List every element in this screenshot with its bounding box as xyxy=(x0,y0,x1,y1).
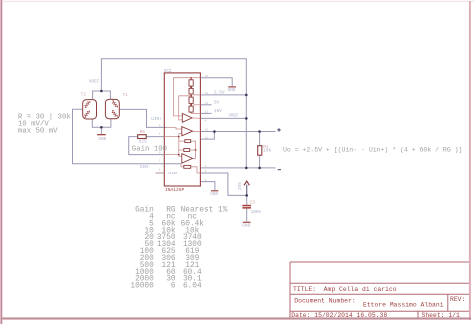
node C3 junction xyxy=(245,194,248,197)
op-amp U1 IC2 INA125P body xyxy=(164,69,201,193)
svg-text:5: 5 xyxy=(205,170,207,173)
pin numbers left side xyxy=(159,124,161,171)
IC internal feedback resistors xyxy=(184,140,191,169)
svg-text:Uo = +2.5V + [(Uin- - Uin+) *: Uo = +2.5V + [(Uin- - Uin+) * (4 + 60k /… xyxy=(283,146,462,153)
svg-text:12: 12 xyxy=(205,111,209,114)
svg-text:100n: 100n xyxy=(251,210,262,215)
svg-text:Gain 100: Gain 100 xyxy=(132,145,167,153)
svg-text:TITLE: Amp Cella di carico: TITLE: Amp Cella di carico xyxy=(293,286,397,293)
svg-text:4: 4 xyxy=(205,120,207,123)
resistor RG (gain set) xyxy=(138,130,147,144)
wire top GND xyxy=(200,78,232,87)
load cell T2 xyxy=(83,100,97,119)
gain table xyxy=(130,207,227,291)
wire RG top row xyxy=(146,136,164,138)
svg-text:5V: 5V xyxy=(214,100,220,105)
svg-text:13: 13 xyxy=(205,102,209,105)
svg-text:GND: GND xyxy=(228,88,236,93)
svg-text:10000: 10000 xyxy=(130,283,154,291)
wire R1 bottom lead xyxy=(259,155,261,168)
svg-text:8: 8 xyxy=(159,132,161,135)
title block text xyxy=(291,286,465,319)
svg-text:15: 15 xyxy=(205,75,209,78)
IC internal op-amp A1 xyxy=(182,114,192,123)
svg-text:6: 6 xyxy=(159,124,161,127)
wire IAREF to C3 node xyxy=(200,173,246,195)
ground (bridge bottom) xyxy=(97,134,107,142)
wire RG return loop xyxy=(129,137,165,155)
svg-text:C3: C3 xyxy=(250,200,256,205)
node VREF rail junction xyxy=(245,117,248,120)
svg-text:VREF: VREF xyxy=(89,79,100,84)
wire C3 to GND xyxy=(246,208,248,222)
ground (IC pin 3) xyxy=(210,190,218,197)
frame right edge xyxy=(469,1,471,320)
IC internal gain rail xyxy=(178,134,180,157)
IC internal op-amp A3 xyxy=(182,154,193,164)
svg-text:10k: 10k xyxy=(263,148,271,153)
load cell T1 xyxy=(105,99,119,118)
node 2.5V rail junction xyxy=(245,94,248,97)
testpoint arrow 2V5 xyxy=(238,181,249,190)
left annotation text xyxy=(18,114,71,136)
svg-text:GND: GND xyxy=(242,223,250,228)
node sense junction xyxy=(213,130,216,133)
wire minus output row xyxy=(200,167,275,169)
svg-text:Sheet: 1/1: Sheet: 1/1 xyxy=(422,312,461,319)
svg-text:Document Number:: Document Number: xyxy=(294,297,355,304)
wire Vo output row to + xyxy=(200,131,275,133)
svg-text:10V: 10V xyxy=(214,109,222,114)
wire UIN+ from bridge T1 to IC xyxy=(119,109,166,127)
node R1 bottom junction xyxy=(258,167,261,170)
pin 1 SLEEP stub xyxy=(156,171,178,175)
ground (below C3) xyxy=(242,222,250,229)
svg-text:RG: RG xyxy=(140,130,146,135)
resistor R1 xyxy=(258,145,272,155)
svg-text:14: 14 xyxy=(205,92,209,95)
svg-text:max 50 mV: max 50 mV xyxy=(18,128,58,136)
junction dots xyxy=(100,90,261,197)
wire UIN- from bridge T2 to IC xyxy=(73,109,182,164)
svg-text:2.5V: 2.5V xyxy=(214,91,225,96)
svg-text:7: 7 xyxy=(159,160,161,163)
wire pin3 to GND xyxy=(200,182,215,191)
wire 2.5V pin to rail xyxy=(200,94,246,96)
svg-text:REV:: REV: xyxy=(450,296,465,303)
wire bridge top bar xyxy=(93,91,111,100)
wire bridge bottom bar xyxy=(92,119,111,128)
svg-text:Ettore Massimo Albani: Ettore Massimo Albani xyxy=(363,302,444,309)
svg-text:GND: GND xyxy=(98,137,106,142)
svg-text:2V5: 2V5 xyxy=(238,182,243,190)
wire testpoint stem xyxy=(246,185,248,196)
IC internal input wires xyxy=(167,127,182,129)
wire C3 node vertical xyxy=(246,185,248,205)
wire 10V stub xyxy=(200,112,211,114)
IC internal op-amp outputs xyxy=(192,117,200,120)
svg-text:625: 625 xyxy=(139,140,147,145)
svg-text:T2: T2 xyxy=(81,92,87,97)
svg-text:T1: T1 xyxy=(122,93,128,98)
output terminal + xyxy=(277,128,281,170)
frame bottom edge xyxy=(1,317,471,319)
wire 5V stub xyxy=(200,104,211,106)
svg-text:IC2: IC2 xyxy=(164,69,172,74)
svg-text:1: 1 xyxy=(159,169,161,172)
node bridge top VREF junction xyxy=(100,90,103,93)
wire VREF pin to rail xyxy=(200,117,246,119)
pin numbers right side xyxy=(205,75,209,182)
svg-text:6.04: 6.04 xyxy=(183,283,202,291)
capacitor C3 xyxy=(242,200,261,214)
svg-text:2: 2 xyxy=(205,165,207,168)
svg-text:11: 11 xyxy=(205,136,209,139)
svg-text:UIN-: UIN- xyxy=(140,165,151,170)
svg-text:GND: GND xyxy=(210,192,218,197)
IC internal wires to ref buffer xyxy=(174,78,192,116)
svg-text:VREF: VREF xyxy=(228,113,239,118)
svg-text:INA125P: INA125P xyxy=(165,187,185,193)
wire bridge center to GND xyxy=(100,127,102,134)
svg-text:6: 6 xyxy=(171,283,176,291)
title block frame xyxy=(290,262,469,318)
wire sense loop xyxy=(200,132,214,140)
IC internal op-amp A2 xyxy=(182,127,193,136)
svg-text:3: 3 xyxy=(205,179,207,182)
svg-text:Date: 15/02/2014 16.05.38: Date: 15/02/2014 16.05.38 xyxy=(291,312,387,319)
svg-text:UIN+: UIN+ xyxy=(151,117,162,122)
output terminal - xyxy=(278,169,281,171)
wire R1 top lead xyxy=(259,132,261,146)
IC internal taps to right pins xyxy=(164,78,200,173)
node R1 top junction xyxy=(258,130,261,133)
svg-text:SLEEP: SLEEP xyxy=(168,171,177,175)
frame top edge xyxy=(2,1,474,2)
node rail minus junction xyxy=(245,167,248,170)
node bridge bottom GND junction xyxy=(100,126,103,129)
frame left edge xyxy=(0,0,2,324)
wire VREF loop (bridge top to right rail) xyxy=(73,59,276,222)
ground (IC top right) xyxy=(228,86,236,93)
svg-text:10: 10 xyxy=(205,129,209,132)
IC internal reference resistor chain xyxy=(189,78,193,114)
